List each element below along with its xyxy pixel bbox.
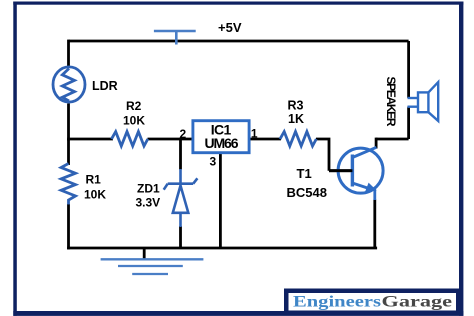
wire LDR top [67,40,70,68]
wire R3 to base corner [316,138,352,171]
IC IC1 UM66 [193,121,249,153]
wire right side vertical upper [407,41,410,98]
wire LDR bottom to junction [67,104,70,141]
transistor T1 BC548 NPN [338,147,383,200]
wire R2 to IC pin 2 [148,138,193,141]
wire IC pin 1 to R3 [249,138,281,141]
svg-text:Garage: Garage [382,293,453,310]
resistor R3 [280,132,316,146]
wire zener bottom [179,226,182,248]
LDR photoresistor [53,67,85,102]
resistor R1 [61,164,75,205]
wire collector feed horizontal [376,138,409,141]
wire junction to R2 [67,138,113,141]
wire R1 to ground rail [67,204,70,249]
base wire over circle [329,169,352,172]
wire collector vertical [375,138,378,149]
wire IC pin 3 down [219,153,222,249]
resistor R2 [112,132,148,146]
wire ground rail bottom [67,247,377,250]
speaker LS1 [408,82,439,121]
wire junction to R1 [67,139,70,165]
wire emitter to ground rail [373,200,376,249]
ground [101,248,204,274]
+5V supply symbol [154,31,196,45]
wire top +5V rail [69,40,409,43]
wire zener top branch [179,138,182,170]
svg-text:Engineers: Engineers [293,293,381,310]
wire right side vertical lower [407,107,410,139]
zener diode ZD1 [164,169,198,227]
